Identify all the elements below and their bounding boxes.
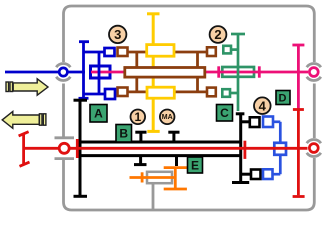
svg-text:C: C	[220, 106, 229, 120]
svg-text:MA: MA	[162, 114, 173, 121]
svg-text:1: 1	[134, 110, 141, 124]
svg-text:D: D	[279, 93, 287, 105]
svg-text:2: 2	[214, 27, 221, 42]
svg-text:B: B	[119, 127, 128, 141]
svg-text:A: A	[94, 107, 103, 121]
svg-text:3: 3	[114, 27, 121, 42]
svg-text:E: E	[191, 159, 199, 173]
svg-text:4: 4	[259, 98, 267, 113]
